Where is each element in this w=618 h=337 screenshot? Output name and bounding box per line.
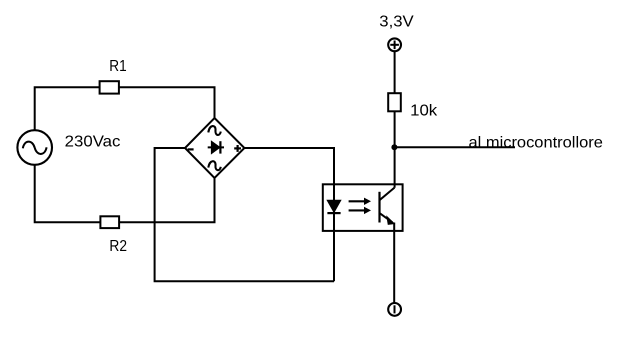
svg-text:R2: R2 [109,238,127,255]
optocoupler phototransistor Q1 [380,188,396,225]
ac tilde top [208,126,221,135]
svg-text:230Vac: 230Vac [65,133,121,150]
svg-text:R1: R1 [109,58,126,75]
wire R3 to collector [394,111,396,188]
internal diode symbol [208,146,224,148]
wire bridge minus to bottom rail [155,148,334,281]
light arrow lower [349,207,371,214]
ac tilde bottom [208,161,221,170]
resistor R3 10k [388,93,401,111]
wire emitter to ground [393,223,395,304]
wire bridge plus to LED anode [244,148,334,281]
minus terminal mark [188,148,194,150]
resistor R2 [100,216,119,228]
optocoupler U1 body [323,184,403,231]
ground symbol [388,303,401,316]
power symbol 3,3V [388,38,401,51]
wire R2 to bridge bottom [119,178,214,222]
wire source-bottom to R2 [35,165,101,222]
svg-text:10k: 10k [410,103,438,120]
wire source-top to R1 [35,87,100,130]
optocoupler LED [327,200,341,213]
wire R1 to bridge top [119,87,215,118]
AC source V1 230Vac [17,130,52,165]
wire output to microcontroller [395,146,515,148]
plus terminal mark [234,147,241,149]
light arrow upper [349,198,371,205]
svg-text:al microcontrollore: al microcontrollore [469,135,603,152]
resistor R1 [100,81,119,93]
junction node output [391,144,397,150]
wire power to R3 [394,51,396,93]
bridge rectifier D1 [185,118,244,178]
svg-text:3,3V: 3,3V [379,14,414,31]
